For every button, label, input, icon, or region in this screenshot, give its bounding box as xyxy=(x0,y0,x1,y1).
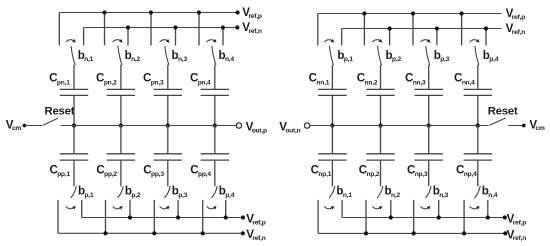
terminal dot V_cm (right) xyxy=(522,124,526,128)
wire: capacitor Cpn,2 to output node (left half) xyxy=(120,95,122,125)
wire: capacitor Cnn,1 to output node (right half) xyxy=(331,95,333,125)
switch bp,2 blade (top, right half) xyxy=(378,46,382,64)
capacitor Cpn,3 (left half) xyxy=(154,88,182,90)
switch bp,4 toggle arrow (bottom, left half) xyxy=(207,207,214,209)
wire: switch stub to V_ref,n bottom rail (col 2, right half) xyxy=(365,200,367,234)
wire: switch to capacitor Cpn,3 (left half) xyxy=(167,65,169,90)
terminal dot V_ref,p bottom rail (left half) xyxy=(241,215,245,219)
svg-text:bp,1: bp,1 xyxy=(337,49,353,63)
capacitor Cnn,3 (right half) xyxy=(415,88,443,90)
wire: V_ref,n stub to switch bn,2 (top col 2, left half) xyxy=(127,28,129,46)
terminal dot V_ref,n bottom rail (left half) xyxy=(241,231,245,235)
svg-text:bn,3: bn,3 xyxy=(172,49,188,63)
capacitor Cpn,1 (left half) xyxy=(60,88,88,90)
junction dot V_ref,n / stub (bottom col 3, left half) xyxy=(152,231,156,235)
wire: switch stub to V_ref,p bottom rail (col 1, left half) xyxy=(81,200,83,218)
junction dot V_ref,n / stub (top col 3, left half) xyxy=(173,25,177,29)
svg-text:bn,2: bn,2 xyxy=(125,49,141,63)
svg-text:Cpp,1: Cpp,1 xyxy=(49,163,70,178)
wire: switch to capacitor Cnn,1 (right half) xyxy=(331,65,333,90)
switch bp,4 toggle arrow (top, right half) xyxy=(470,40,477,42)
wire: capacitor Cpn,4 to output node (left half) xyxy=(214,95,216,125)
junction dot V_ref,p / stub (bottom col 4, left half) xyxy=(224,215,228,219)
junction dot output node col 1 (top, right half) xyxy=(330,123,334,127)
junction dot V_ref,n / stub (bottom col 2, left half) xyxy=(103,231,107,235)
switch bp,3 toggle arrow (bottom, left half) xyxy=(160,207,167,209)
switch bp,1 blade (bottom, left half) xyxy=(71,186,76,197)
wire: capacitor Cpn,1 to output node (left half) xyxy=(73,95,75,125)
wire: V_ref,n stub to switch bn,1 (top col 1, left half) xyxy=(83,28,85,46)
svg-text:Cnn,4: Cnn,4 xyxy=(454,72,475,87)
wire: capacitor Cnp,2 to switch bn,2 (right half) xyxy=(380,160,382,186)
switch bp,3 toggle arrow (top, right half) xyxy=(421,40,428,42)
svg-text:Vref,n: Vref,n xyxy=(507,228,527,242)
svg-text:Vref,p: Vref,p xyxy=(507,212,527,226)
svg-text:Cnp,1: Cnp,1 xyxy=(311,163,332,178)
wire: V_ref,p stub to switch bp,2 (top col 2, right half) xyxy=(363,14,365,46)
terminal dot V_ref,p bottom rail (right half) xyxy=(503,215,507,219)
wire: output node to capacitor Cpp,4 (left half) xyxy=(214,126,216,154)
junction dot V_ref,n / stub (top col 4, left half) xyxy=(221,25,225,29)
svg-text:Cnp,2: Cnp,2 xyxy=(359,163,380,178)
junction dot V_ref,p / stub (top col 3, right half) xyxy=(411,11,415,15)
switch bp,2 blade (bottom, left half) xyxy=(118,186,123,197)
wire: Reset switch to V_cm (right) xyxy=(508,125,524,127)
switch bp,4 blade (bottom, left half) xyxy=(212,186,217,197)
junction dot V_ref,n / stub (top col 2, left half) xyxy=(126,25,130,29)
junction dot V_ref,p / stub (bottom col 3, left half) xyxy=(176,215,180,219)
switch bp,3 blade (bottom, left half) xyxy=(165,186,170,197)
capacitor Cpp,3 (left half) xyxy=(154,153,182,155)
junction dot output node col 4 (top, left half) xyxy=(213,123,217,127)
junction dot V_ref,n / stub (top col 4, right half) xyxy=(484,26,488,30)
svg-text:Vout,n: Vout,n xyxy=(279,121,300,135)
capacitor Cpn,2 (left half) xyxy=(107,88,135,90)
capacitor Cnn,4 (right half) xyxy=(464,88,492,90)
svg-text:Cpp,4: Cpp,4 xyxy=(190,163,211,178)
wire: switch to capacitor Cpn,1 (left half) xyxy=(73,65,75,90)
svg-text:Cnp,3: Cnp,3 xyxy=(407,163,428,178)
svg-text:Cnn,1: Cnn,1 xyxy=(309,72,330,87)
wire: output node to capacitor Cnp,3 (right half) xyxy=(428,126,430,154)
wire: V_ref,p stub to switch bp,3 (top col 3, right half) xyxy=(412,14,414,46)
svg-text:Vref,p: Vref,p xyxy=(242,6,262,20)
terminal dot V_ref,n bottom rail (right half) xyxy=(503,231,507,235)
junction dot V_ref,p / stub (bottom col 3, right half) xyxy=(437,215,441,219)
svg-text:bp,1: bp,1 xyxy=(78,185,94,199)
junction dot output node col 2 (top, right half) xyxy=(378,123,382,127)
switch bp,1 toggle arrow (bottom, left half) xyxy=(66,207,73,209)
junction dot V_ref,p / stub (bottom col 4, right half) xyxy=(486,215,490,219)
svg-text:Vref,n: Vref,n xyxy=(506,22,526,36)
capacitor Cnp,2 (right half) xyxy=(366,153,394,155)
switch bp,2 toggle arrow (bottom, left half) xyxy=(113,207,120,209)
terminal dot V_ref,n top rail (left half) xyxy=(235,25,239,29)
switch bn,1 blade (bottom, right half) xyxy=(329,186,334,197)
junction dot V_ref,n / stub (bottom col 4, left half) xyxy=(201,231,205,235)
switch bn,4 toggle arrow (bottom, right half) xyxy=(470,207,477,209)
wire: capacitor Cpp,4 to switch bp,4 (left half) xyxy=(214,160,216,186)
wire: switch stub to V_ref,n bottom rail (col 1, left half) xyxy=(57,200,59,233)
capacitor Cnp,4 (right half) xyxy=(464,153,492,155)
capacitor Cnn,1 (right half) xyxy=(318,88,346,90)
wire: V_ref,p bottom rail (left half) xyxy=(82,217,243,219)
svg-text:bn,3: bn,3 xyxy=(433,185,449,199)
capacitor Cnp,3 (right half) xyxy=(415,153,443,155)
svg-text:Reset: Reset xyxy=(45,105,75,117)
wire: capacitor Cpp,2 to switch bp,2 (left half) xyxy=(120,160,122,186)
switch bp,2 toggle arrow (top, right half) xyxy=(373,40,380,42)
svg-text:Cpp,3: Cpp,3 xyxy=(143,163,164,178)
switch bn,3 toggle arrow (top, left half) xyxy=(160,40,167,42)
terminal circle V_out,n xyxy=(304,123,309,128)
svg-text:bp,2: bp,2 xyxy=(386,49,402,63)
svg-text:bp,3: bp,3 xyxy=(434,49,450,63)
terminal dot V_cm (left) xyxy=(23,124,27,128)
wire: switch stub to V_ref,n bottom rail (col 2, left half) xyxy=(105,200,107,233)
svg-text:Cpn,4: Cpn,4 xyxy=(190,72,211,87)
svg-text:bp,3: bp,3 xyxy=(172,185,188,199)
capacitor Cpp,2 (left half) xyxy=(107,153,135,155)
wire: capacitor Cpp,1 to switch bp,1 (left half) xyxy=(73,160,75,186)
switch bn,4 toggle arrow (top, left half) xyxy=(207,40,214,42)
junction dot output node col 3 (top, left half) xyxy=(166,123,170,127)
wire: V_ref,n stub to switch bn,3 (top col 3, left half) xyxy=(175,28,177,46)
svg-text:bp,4: bp,4 xyxy=(483,49,499,63)
wire: V_ref,n top rail (left half) xyxy=(84,27,238,29)
svg-text:Cpn,1: Cpn,1 xyxy=(49,72,70,87)
wire: switch to capacitor Cnn,3 (right half) xyxy=(428,65,430,90)
junction dot output node col 1 (top, left half) xyxy=(72,123,76,127)
wire: V_ref,p stub to switch bn,1 (top col 1, left half) xyxy=(58,13,60,46)
wire: capacitor Cnn,3 to output node (right half) xyxy=(428,95,430,125)
wire: switch stub to V_ref,n bottom rail (col 3, right half) xyxy=(413,200,415,234)
wire: output node to capacitor Cpp,3 (left half) xyxy=(167,126,169,154)
junction dot output node col 2 (top, left half) xyxy=(119,123,123,127)
wire: capacitor Cnp,1 to switch bn,1 (right half) xyxy=(331,160,333,186)
wire: capacitor Cnp,3 to switch bn,3 (right half) xyxy=(428,160,430,186)
junction dot V_ref,n / stub (bottom col 3, right half) xyxy=(412,231,416,235)
capacitor Cpp,4 (left half) xyxy=(201,153,229,155)
wire: capacitor Cpp,3 to switch bp,3 (left half) xyxy=(167,160,169,186)
wire: capacitor Cpn,3 to output node (left half) xyxy=(167,95,169,125)
Reset switch blade (left) xyxy=(43,118,57,125)
wire: switch stub to V_ref,p bottom rail (col 2, right half) xyxy=(390,200,392,218)
switch bp,3 blade (top, right half) xyxy=(426,46,430,64)
junction dot V_ref,p / stub (top col 4, left half) xyxy=(197,10,201,14)
junction dot V_ref,n / stub (bottom col 2, right half) xyxy=(364,231,368,235)
capacitor Cpp,1 (left half) xyxy=(60,153,88,155)
switch bn,3 blade (bottom, right half) xyxy=(426,186,431,197)
svg-text:bn,4: bn,4 xyxy=(482,185,498,199)
junction dot output node col 3 (top, right half) xyxy=(427,123,431,127)
switch bn,2 blade (bottom, right half) xyxy=(378,186,383,197)
svg-text:Cpp,2: Cpp,2 xyxy=(96,163,117,178)
wire: output node to capacitor Cnp,2 (right half) xyxy=(380,126,382,154)
switch bp,4 blade (top, right half) xyxy=(475,46,479,64)
switch bn,4 blade (bottom, right half) xyxy=(475,186,480,197)
wire: V_ref,p stub to switch bn,2 (top col 2, left half) xyxy=(104,13,106,46)
junction dot V_ref,p / stub (top col 2, right half) xyxy=(362,11,366,15)
svg-text:Cnn,3: Cnn,3 xyxy=(405,72,426,87)
wire: switch stub to V_ref,n bottom rail (col 4, left half) xyxy=(202,200,204,233)
wire: switch stub to V_ref,p bottom rail (col 3, left half) xyxy=(177,200,179,218)
wire: V_ref,p stub to switch bp,4 (top col 4, right half) xyxy=(461,14,463,46)
junction dot V_ref,p / stub (top col 4, right half) xyxy=(460,11,464,15)
capacitor Cpn,4 (left half) xyxy=(201,88,229,90)
wire: V_ref,n bottom rail (left half) xyxy=(58,232,243,234)
switch bn,1 toggle arrow (top, left half) xyxy=(66,40,73,42)
wire: output node to capacitor Cpp,1 (left half) xyxy=(73,126,75,154)
wire: switch stub to V_ref,p bottom rail (col 3, right half) xyxy=(438,200,440,218)
junction dot V_ref,p / stub (top col 2, left half) xyxy=(102,10,106,14)
svg-text:bp,2: bp,2 xyxy=(125,185,141,199)
switch bp,1 toggle arrow (top, right half) xyxy=(325,40,332,42)
wire: switch to capacitor Cnn,2 (right half) xyxy=(380,65,382,90)
wire: V_ref,n stub to switch bn,4 (top col 4, left half) xyxy=(222,28,224,46)
junction dot output node col 4 (top, right half) xyxy=(476,123,480,127)
wire: V_ref,p stub to switch bp,1 (top col 1, right half) xyxy=(317,14,319,46)
wire: V_ref,p stub to switch bn,4 (top col 4, left half) xyxy=(198,13,200,46)
wire: output node to capacitor Cnp,4 (right half) xyxy=(477,126,479,154)
svg-text:bn,4: bn,4 xyxy=(219,49,235,63)
svg-text:Vref,n: Vref,n xyxy=(242,21,262,35)
wire: V_ref,n bottom rail (right half) xyxy=(318,232,505,234)
wire: V_ref,p top rail (right half) xyxy=(318,13,502,15)
wire: switch stub to V_ref,p bottom rail (col 2, left half) xyxy=(129,200,131,218)
svg-text:Vref,n: Vref,n xyxy=(246,228,266,242)
switch bn,1 blade (top, left half) xyxy=(71,46,75,64)
junction dot V_ref,p / stub (top col 3, left half) xyxy=(149,10,153,14)
junction dot V_ref,n / stub (top col 3, right half) xyxy=(435,26,439,30)
junction dot V_ref,n / stub (bottom col 4, right half) xyxy=(462,231,466,235)
wire: V_out,n output node to Reset switch (right) xyxy=(310,125,489,127)
svg-text:Vout,p: Vout,p xyxy=(246,121,267,135)
switch bn,3 blade (top, left half) xyxy=(165,46,169,64)
wire: switch stub to V_ref,p bottom rail (col 1, right half) xyxy=(341,200,343,218)
terminal circle V_out,p xyxy=(236,123,241,128)
wire: V_ref,n stub to switch bp,4 (top col 4, right half) xyxy=(485,29,487,46)
wire: output node to capacitor Cnp,1 (right half) xyxy=(331,126,333,154)
svg-text:Cpn,3: Cpn,3 xyxy=(143,72,164,87)
wire: V_cm to Reset switch (left) xyxy=(24,125,42,127)
Reset switch blade (right) xyxy=(490,118,506,125)
wire: output node to capacitor Cpp,2 (left half) xyxy=(120,126,122,154)
junction dot V_ref,n / stub (top col 2, right half) xyxy=(388,26,392,30)
switch bp,1 blade (top, right half) xyxy=(330,46,334,64)
switch bn,4 blade (top, left half) xyxy=(212,46,216,64)
switch bn,2 toggle arrow (bottom, right half) xyxy=(373,207,380,209)
svg-text:Cnn,2: Cnn,2 xyxy=(357,72,378,87)
switch bn,3 toggle arrow (bottom, right half) xyxy=(421,207,428,209)
wire: switch to capacitor Cnn,4 (right half) xyxy=(477,65,479,90)
svg-text:Cnp,4: Cnp,4 xyxy=(456,163,477,178)
wire: switch stub to V_ref,p bottom rail (col 4, right half) xyxy=(487,200,489,218)
switch bn,2 toggle arrow (top, left half) xyxy=(113,40,120,42)
wire: Reset switch to output node V_out,p (left) xyxy=(61,125,236,127)
svg-text:bn,1: bn,1 xyxy=(336,185,352,199)
capacitor Cnn,2 (right half) xyxy=(366,88,394,90)
svg-text:Vcm: Vcm xyxy=(6,118,22,132)
wire: capacitor Cnn,2 to output node (right half) xyxy=(380,95,382,125)
wire: V_ref,n top rail (right half) xyxy=(342,28,502,30)
svg-text:Reset: Reset xyxy=(488,105,518,117)
svg-text:Vref,p: Vref,p xyxy=(246,212,266,226)
svg-text:Cpn,2: Cpn,2 xyxy=(96,72,117,87)
svg-text:bn,1: bn,1 xyxy=(78,49,94,63)
terminal dot V_ref,p top rail (left half) xyxy=(236,10,240,14)
svg-text:bn,2: bn,2 xyxy=(385,185,401,199)
svg-text:Vcm: Vcm xyxy=(529,118,545,132)
svg-text:bp,4: bp,4 xyxy=(219,185,235,199)
wire: V_ref,p top rail (left half) xyxy=(59,12,237,14)
wire: switch to capacitor Cpn,2 (left half) xyxy=(120,65,122,90)
wire: V_ref,n stub to switch bp,1 (top col 1, right half) xyxy=(341,29,343,46)
switch bn,1 toggle arrow (bottom, right half) xyxy=(325,207,332,209)
wire: switch to capacitor Cpn,4 (left half) xyxy=(214,65,216,90)
svg-text:Vref,p: Vref,p xyxy=(506,7,526,21)
junction dot V_ref,p / stub (bottom col 2, left half) xyxy=(128,215,132,219)
junction dot V_ref,p / stub (bottom col 2, right half) xyxy=(389,215,393,219)
wire: capacitor Cnp,4 to switch bn,4 (right half) xyxy=(477,160,479,186)
wire: V_ref,p bottom rail (right half) xyxy=(342,217,505,219)
capacitor Cnp,1 (right half) xyxy=(318,153,346,155)
wire: V_ref,p stub to switch bn,3 (top col 3, left half) xyxy=(150,13,152,46)
wire: switch stub to V_ref,p bottom rail (col 4, left half) xyxy=(225,200,227,218)
switch bn,2 blade (top, left half) xyxy=(118,46,122,64)
wire: V_ref,n stub to switch bp,2 (top col 2, right half) xyxy=(389,29,391,46)
wire: V_ref,n stub to switch bp,3 (top col 3, right half) xyxy=(436,29,438,46)
wire: capacitor Cnn,4 to output node (right half) xyxy=(477,95,479,125)
wire: switch stub to V_ref,n bottom rail (col 4, right half) xyxy=(463,200,465,234)
wire: switch stub to V_ref,n bottom rail (col 1, right half) xyxy=(317,200,319,234)
wire: switch stub to V_ref,n bottom rail (col 3, left half) xyxy=(153,200,155,233)
